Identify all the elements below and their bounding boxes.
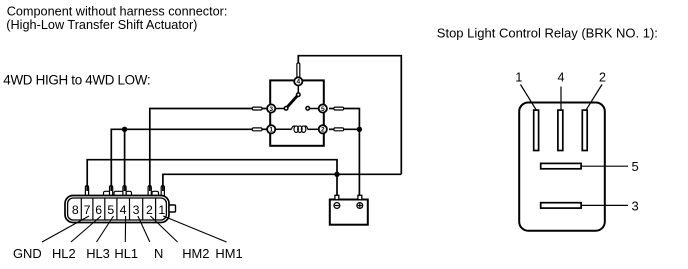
svg-text:HM2: HM2 (182, 246, 209, 261)
svg-text:4WD HIGH to 4WD LOW:: 4WD HIGH to 4WD LOW: (3, 73, 150, 88)
svg-text:HL2: HL2 (52, 246, 76, 261)
svg-text:(High-Low Transfer Shift Actua: (High-Low Transfer Shift Actuator) (6, 18, 197, 32)
svg-text:Component without harness conn: Component without harness connector: (7, 4, 228, 18)
svg-text:HL3: HL3 (86, 246, 110, 261)
svg-text:HM1: HM1 (215, 246, 242, 261)
svg-text:3: 3 (632, 199, 639, 214)
svg-text:2: 2 (146, 203, 153, 217)
svg-text:GND: GND (13, 246, 42, 261)
svg-text:1: 1 (269, 127, 273, 134)
svg-text:4: 4 (558, 71, 565, 85)
svg-text:2: 2 (321, 127, 325, 134)
svg-text:Stop Light Control Relay (BRK: Stop Light Control Relay (BRK NO. 1): (437, 26, 658, 41)
svg-text:1: 1 (515, 71, 522, 85)
svg-text:N: N (154, 246, 163, 261)
svg-text:4: 4 (120, 203, 127, 217)
svg-text:7: 7 (84, 203, 91, 217)
svg-text:3: 3 (133, 203, 140, 217)
svg-text:6: 6 (95, 203, 102, 217)
svg-text:5: 5 (632, 159, 639, 174)
svg-text:3: 3 (269, 106, 273, 113)
svg-text:5: 5 (107, 203, 114, 217)
svg-text:HL1: HL1 (114, 246, 138, 261)
svg-text:4: 4 (296, 79, 300, 86)
svg-text:2: 2 (599, 71, 606, 85)
svg-text:5: 5 (321, 106, 325, 113)
svg-text:8: 8 (72, 203, 79, 217)
svg-text:1: 1 (158, 203, 165, 217)
